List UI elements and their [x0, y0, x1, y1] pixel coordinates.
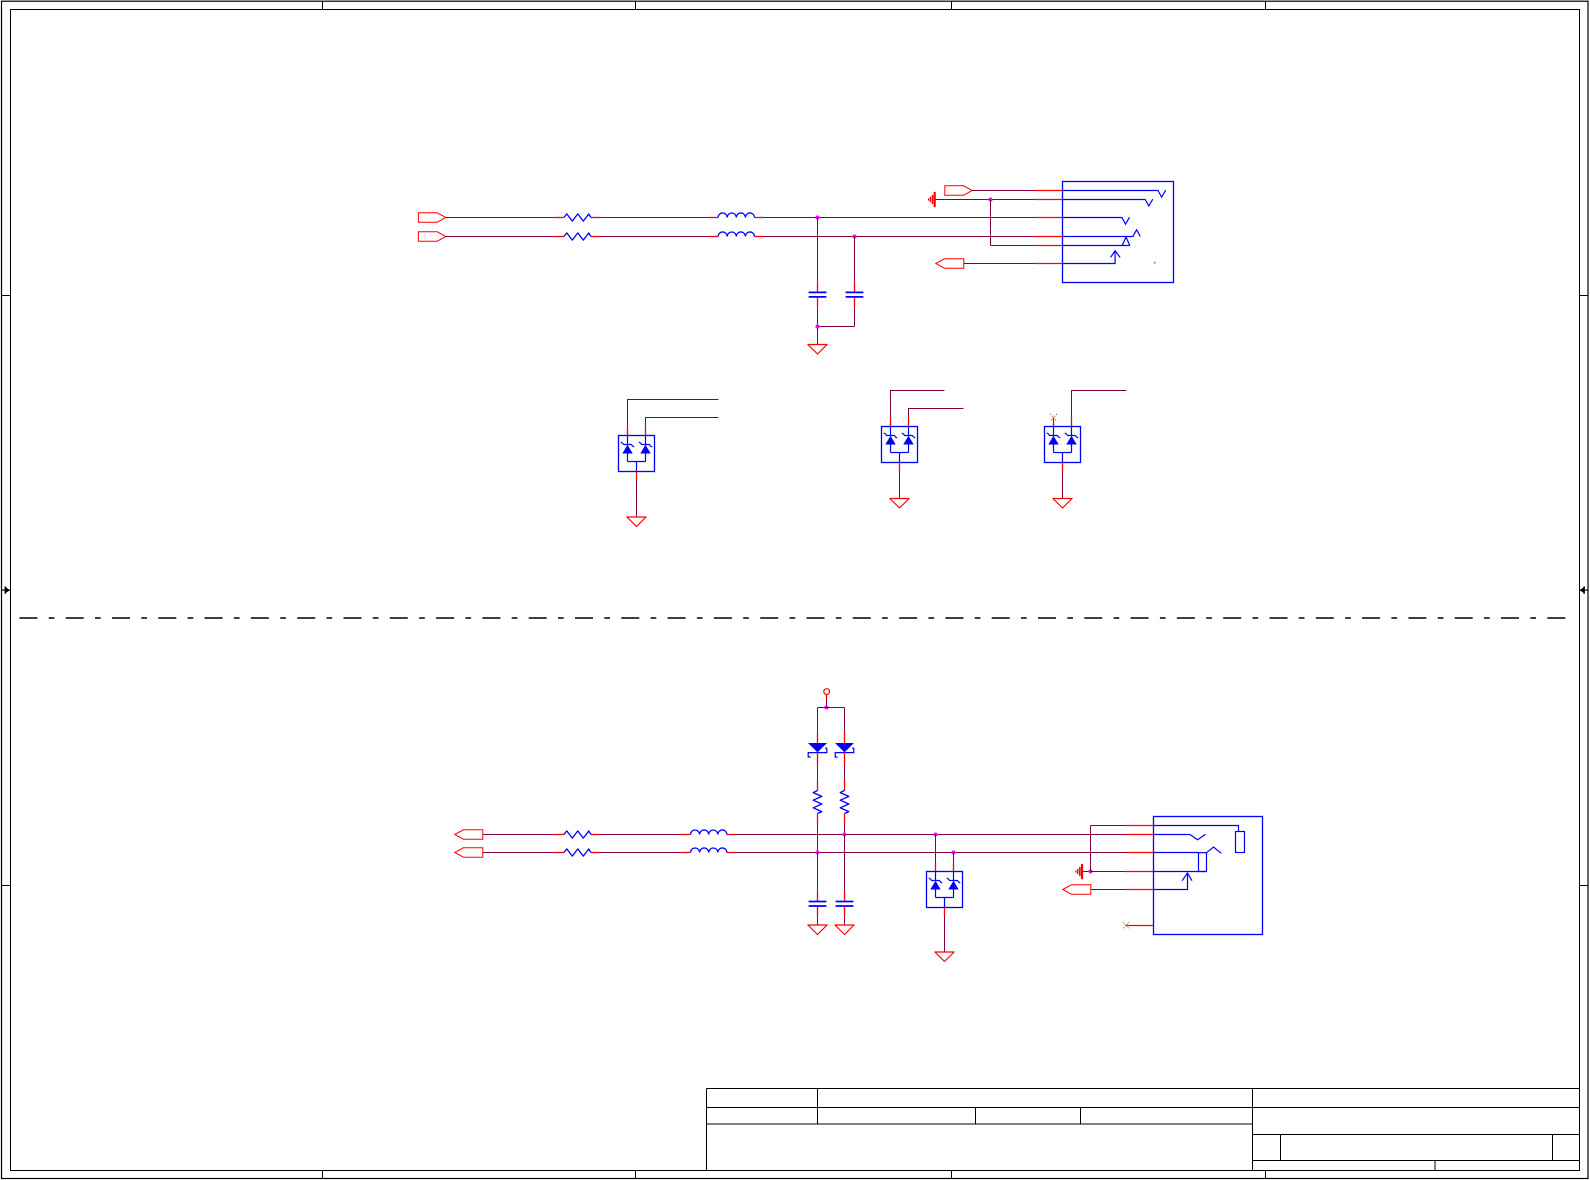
wire net1 R1 to L1	[600, 217, 708, 219]
J2 pin 5	[1126, 889, 1154, 891]
jack connector J2 body	[1154, 817, 1263, 935]
inductor L3	[681, 830, 736, 835]
junction on GND net	[988, 197, 992, 201]
J2 internal pin line 2 tip contact	[1154, 834, 1206, 840]
wire E2 to junction	[1083, 871, 1091, 873]
port P4 (left-pointing)	[936, 259, 964, 268]
ground GND3	[890, 499, 909, 509]
wire R5 down to net4	[817, 824, 819, 853]
wire D4 to resistor	[817, 766, 819, 781]
wire C1 to ground	[817, 307, 819, 344]
resistor R4	[554, 849, 600, 856]
D6 pin stubs	[935, 863, 937, 872]
wire GND riser	[1090, 826, 1092, 872]
J1 internal pin line 2	[1063, 199, 1153, 206]
wire left branch down to C3	[817, 853, 819, 897]
port P2 (right-pointing)	[418, 232, 445, 241]
wire D1 left pin up-right	[628, 400, 719, 427]
port P6 (left-pointing)	[455, 848, 483, 857]
capacitor C1	[809, 282, 827, 307]
inductor L2	[709, 232, 764, 237]
junction at ground tie	[815, 324, 819, 328]
J2 pin 6	[1126, 925, 1153, 927]
ESD diode array D1	[619, 436, 655, 472]
junction ESD left on net3	[933, 832, 937, 836]
port P3 (right-pointing)	[945, 186, 972, 195]
wire net3 P5 to R3	[483, 834, 555, 836]
pin stub below circle	[826, 695, 828, 700]
resistor R2	[554, 233, 600, 240]
wire D1 right pin up-right	[646, 418, 719, 427]
J1 internal pin line 4	[1063, 230, 1141, 237]
wire junction down to C1	[817, 218, 819, 282]
wire net3 L3 to J2 pin2	[736, 834, 1125, 836]
J1 pin 6	[1035, 263, 1063, 265]
J1 pin 2	[1035, 199, 1063, 201]
ground GND6	[835, 925, 854, 935]
wire C2 branch to C1 branch	[818, 326, 855, 328]
J1 internal pin line 1	[1063, 190, 1166, 197]
resistor R3	[554, 831, 600, 838]
wire C3 to GND5	[817, 916, 819, 925]
J1 stray mark	[1154, 262, 1156, 264]
wire P3 to J1 pin1	[972, 190, 1034, 192]
wire net1 L1 to J1 pin3	[764, 217, 1035, 219]
J1 internal pin line 6 with up arrow	[1063, 251, 1121, 264]
wire D5 to resistor	[844, 766, 846, 781]
wire GND net down	[990, 200, 992, 246]
wire junction to J2 pin4	[1091, 871, 1126, 873]
ESD diode array D3	[1045, 427, 1081, 463]
ground GND1	[808, 345, 827, 355]
wire net4 down to D6	[953, 853, 955, 863]
junction on top bar	[824, 705, 828, 709]
J2 pin 2	[1126, 834, 1154, 836]
J1 pin 5	[1035, 245, 1063, 247]
wire net1 P1 to R1	[446, 217, 555, 219]
wire C4 to GND6	[844, 916, 846, 925]
J2 internal pin line 4	[1154, 871, 1207, 873]
wire GND net to J1 pin5	[991, 245, 1035, 247]
wire bar down left	[817, 708, 819, 733]
power node circle	[824, 689, 830, 695]
D1 pin stubs	[627, 426, 629, 435]
wire net4 P6 to R4	[483, 852, 555, 854]
earth ground symbol E1	[929, 193, 935, 206]
no-ERC cross on D3 pin1	[1050, 414, 1057, 421]
wire D3 to ground	[1062, 472, 1064, 499]
junction ESD right on net4	[951, 850, 955, 854]
ESD diode array D6	[927, 872, 963, 908]
ground GND4	[1053, 499, 1072, 509]
wire D2 left pin up-right	[891, 391, 945, 418]
TVS diode D5 (pointing down)	[835, 733, 854, 766]
J2 internal pin line 5 with up arrow	[1154, 873, 1193, 890]
port P5 (left-pointing)	[455, 830, 483, 839]
D2 pin stubs	[890, 418, 892, 427]
J1 pin 3	[1035, 217, 1063, 219]
junction R5 on net4	[815, 850, 819, 854]
J1 pin 1	[1035, 190, 1063, 192]
wire junction down to C2	[854, 237, 856, 282]
wire right branch down to C4	[844, 835, 846, 897]
junction on net2	[852, 234, 856, 238]
wire C2 down	[854, 307, 856, 326]
ground GND5	[808, 925, 827, 935]
wire net3 down to D6	[935, 835, 937, 863]
J2 internal pin line 3 with contact box and flex	[1154, 847, 1222, 872]
capacitor C2	[846, 282, 864, 307]
wire net2 R2 to L2	[600, 236, 708, 238]
connector J1 body	[1063, 182, 1174, 283]
J2 pin 4	[1126, 871, 1154, 873]
ground GND2	[627, 517, 646, 527]
wire bar down right	[844, 708, 846, 733]
capacitor C4	[836, 891, 854, 916]
resistor R5 (vertical)	[813, 781, 822, 824]
wire GND to J2 pin1	[1091, 825, 1126, 827]
wire D1 to ground	[636, 481, 638, 518]
junction R6 on net3	[842, 832, 846, 836]
J2 pin 3	[1126, 852, 1154, 854]
top bar wire	[818, 707, 845, 709]
port P1 (right-pointing)	[418, 213, 445, 222]
TVS diode D4 (pointing down)	[808, 733, 827, 766]
J2 internal pin line 1 with switch box	[1154, 826, 1245, 853]
wire net4 L4 to J2 pin3	[736, 852, 1125, 854]
wire P4 to J1 pin6	[964, 263, 1035, 265]
wire D3 right pin up-right	[1072, 391, 1127, 418]
J2 pin 1	[1126, 825, 1154, 827]
wire D2 right pin up-right	[909, 409, 964, 418]
earth ground symbol E2	[1076, 865, 1082, 878]
wire net3 R3 to L3	[600, 834, 681, 836]
resistor R6 (vertical)	[840, 781, 849, 824]
wire net2 L2 to J1 pin4	[764, 236, 1035, 238]
junction GND tie	[1088, 869, 1092, 873]
J1 internal pin line 3	[1063, 217, 1130, 224]
port P7 (left-pointing)	[1063, 885, 1091, 894]
wire D2 to ground	[899, 472, 901, 499]
wire D6 to GND7	[944, 917, 946, 953]
wire E1 to junction	[936, 199, 991, 201]
wire R6 down to net3	[844, 824, 846, 835]
J1 internal pin line 5 with triangle	[1063, 237, 1130, 246]
ground GND7	[935, 952, 954, 962]
wire circle to top bar	[826, 699, 828, 708]
wire net4 R4 to L4	[600, 852, 681, 854]
junction on net1	[815, 215, 819, 219]
D3 pin stubs	[1053, 418, 1055, 427]
wire junction to J1 pin2	[991, 199, 1035, 201]
capacitor C3	[809, 891, 827, 916]
inductor L4	[681, 848, 736, 853]
no-ERC cross on J2 pin6	[1123, 922, 1130, 929]
resistor R1	[554, 214, 600, 221]
ESD diode array D2	[882, 427, 918, 463]
wire net2 P2 to R2	[446, 236, 555, 238]
inductor L1	[709, 213, 764, 218]
J1 pin 4	[1035, 236, 1063, 238]
wire P7 to J2 pin5	[1091, 889, 1126, 891]
